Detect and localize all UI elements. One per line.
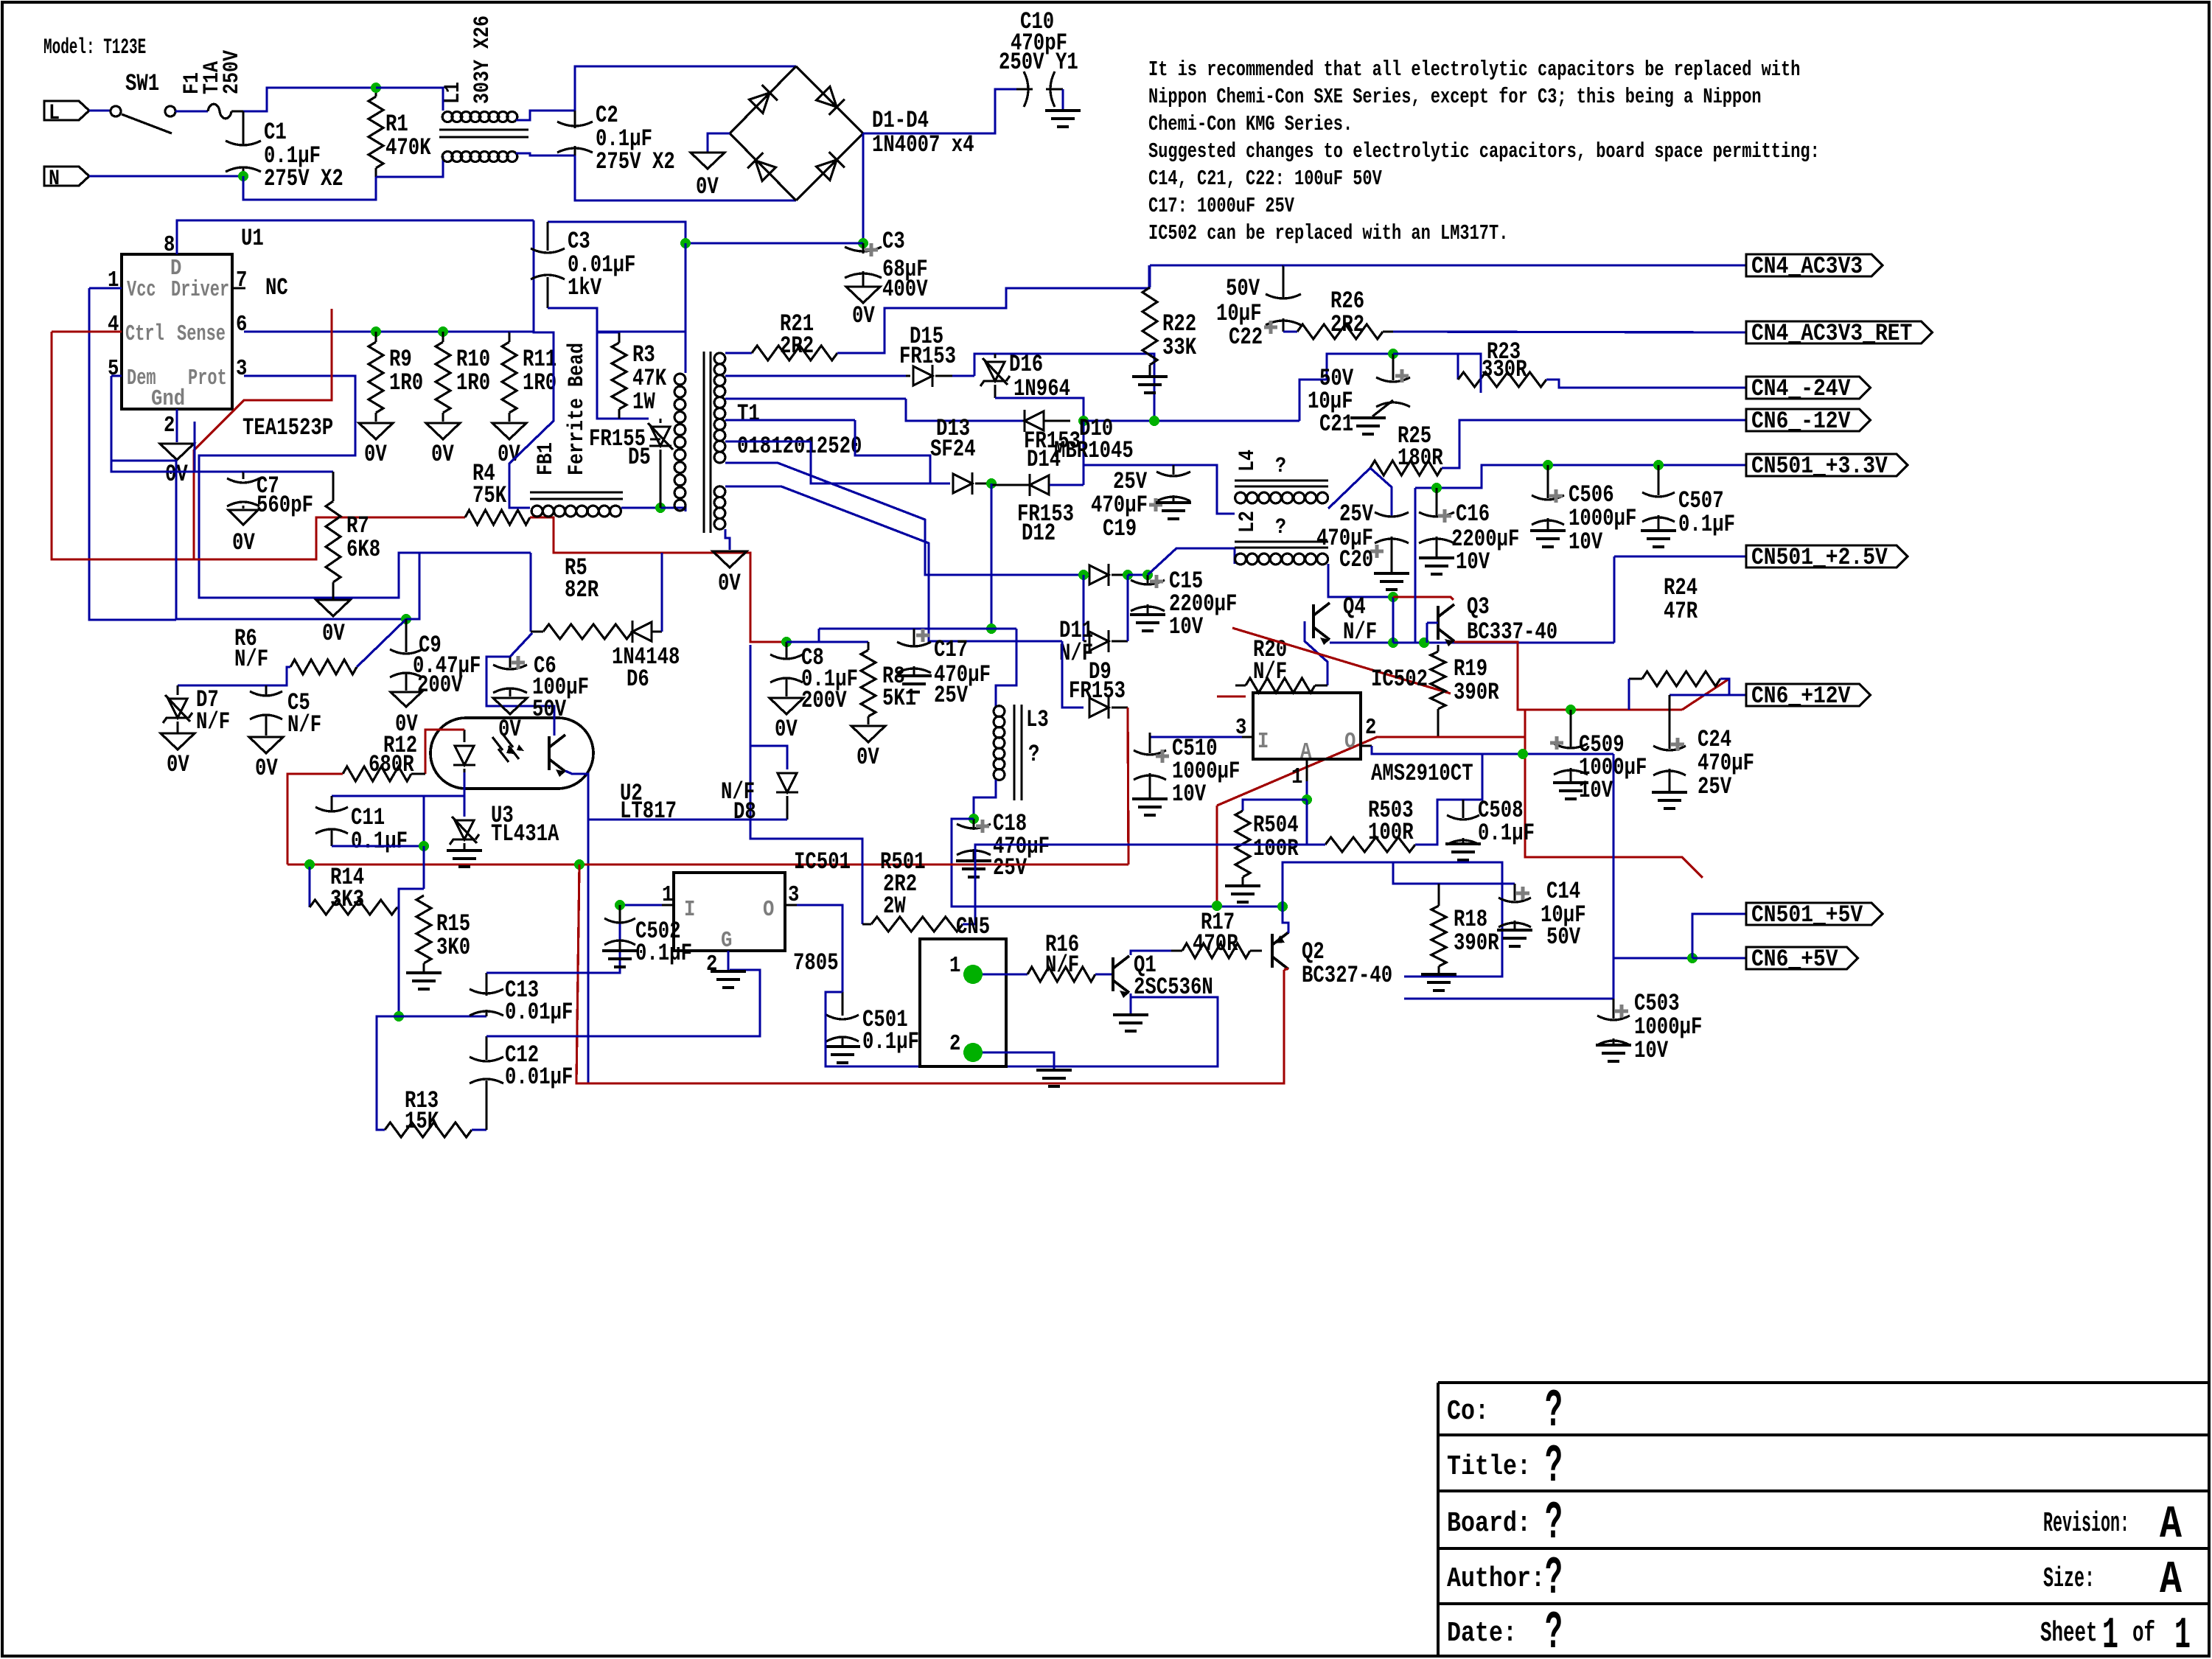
svg-text:200V: 200V (801, 687, 847, 714)
svg-text:NC: NC (265, 274, 288, 301)
wire Q4 emitter row (1330, 641, 1393, 643)
capacitor C5 (265, 685, 267, 695)
svg-text:U1: U1 (241, 225, 264, 252)
ground 0V C7 (228, 510, 258, 525)
svg-text:C19: C19 (1103, 515, 1137, 542)
CN5 pin1 wire to R16 (983, 973, 1028, 975)
svg-text:Q4: Q4 (1343, 593, 1366, 621)
svg-text:BC327-40: BC327-40 (1302, 962, 1392, 989)
capacitor C9 (405, 619, 407, 652)
svg-text:Sheet: Sheet (2040, 1618, 2098, 1649)
resistor R10 (438, 326, 448, 337)
opto emitter wire (565, 771, 588, 1083)
inductor L4 winding (1235, 492, 1328, 503)
wire C11 node down to R15 top (422, 846, 425, 889)
svg-text:1: 1 (108, 268, 119, 293)
wire D11 out up (1126, 575, 1128, 641)
wire bridge left to ground (708, 133, 730, 153)
svg-text:G: G (721, 928, 732, 954)
svg-text:2: 2 (1365, 715, 1376, 741)
svg-text:L3: L3 (1026, 706, 1049, 733)
capacitor C1 (226, 141, 261, 145)
wire R24 to +12V flag (1720, 679, 1746, 695)
resistor R21 (752, 346, 837, 360)
resistor R501 (750, 645, 862, 924)
capacitor C17 (913, 629, 915, 646)
ground 0V C8 (770, 698, 803, 714)
wire fuse junction to top rail (243, 88, 376, 111)
wire sec tap diag to D10 rail (725, 463, 1084, 575)
svg-text:IC502: IC502 (1371, 666, 1428, 693)
svg-text:4: 4 (108, 312, 119, 338)
capacitor C8 (785, 642, 787, 658)
svg-text:275V X2: 275V X2 (596, 148, 675, 175)
U1 pin7 stub (232, 287, 245, 289)
svg-text:1: 1 (1291, 764, 1302, 790)
svg-text:100R: 100R (1368, 819, 1414, 846)
transistor Q2 BC327-40 (1272, 932, 1288, 969)
svg-text:200V: 200V (417, 671, 463, 699)
svg-text:250V: 250V (220, 50, 245, 94)
svg-text:2R2: 2R2 (1330, 311, 1364, 338)
ground 0V C3 (846, 287, 880, 303)
resistor R24 (1642, 671, 1720, 686)
wire D13 junction to C17 rail (990, 483, 992, 629)
ground 0V R11 (492, 423, 526, 439)
U1 pin5 dem staircase (111, 376, 406, 619)
svg-text:Vcc: Vcc (127, 277, 156, 303)
svg-text:390R: 390R (1454, 679, 1499, 706)
svg-text:N/F: N/F (196, 708, 230, 736)
fuse F1 (208, 104, 231, 119)
vertical C8 to C17 rail (817, 629, 820, 642)
svg-text:7805: 7805 (793, 949, 839, 977)
wire R14 left from red rail (308, 867, 310, 907)
transistor Q1 2SC536N (1113, 956, 1129, 993)
opto light arrows (492, 734, 519, 762)
svg-text:0V: 0V (498, 716, 521, 743)
wire C14 rail (1393, 862, 1515, 884)
svg-text:D1-D4: D1-D4 (872, 107, 929, 134)
svg-text:470R: 470R (1193, 930, 1238, 957)
svg-text:Date:: Date: (1447, 1618, 1517, 1649)
svg-text:250V Y1: 250V Y1 (999, 49, 1078, 76)
svg-text:?: ? (1545, 1493, 1563, 1554)
ground 0V C6 (493, 698, 527, 714)
wire R25 node diag to C20 (1370, 468, 1392, 517)
T1 primary winding (674, 374, 685, 511)
red wire R19 node down to mid rail (1215, 806, 1218, 906)
capacitor C506 (1543, 460, 1553, 470)
svg-text:C22: C22 (1229, 324, 1263, 351)
ground 0V R7 (316, 600, 350, 616)
wire C16 node rail (1415, 465, 1746, 488)
resistor R7 (332, 472, 334, 501)
ground 0V R10 (426, 423, 460, 439)
svg-text:O: O (1344, 729, 1356, 755)
opto transistor (549, 735, 565, 772)
diode D14 FR153 (1025, 410, 1044, 432)
ground 0V R8 (851, 726, 885, 742)
connector flag CN4_AC3V3 (1746, 254, 1883, 276)
wire +2.5V flag rail (1614, 555, 1746, 557)
svg-text:N/F: N/F (287, 711, 321, 738)
connector flag N (44, 167, 89, 186)
IC502 pin2 wire (1361, 744, 1372, 747)
rail C17 row (819, 627, 1016, 629)
svg-text:IC501: IC501 (794, 848, 851, 876)
svg-text:C17: C17 (934, 636, 968, 663)
svg-text:O: O (763, 897, 774, 923)
wire D6 right up to red rail (660, 553, 663, 632)
wire D16 riser (974, 354, 1154, 421)
svg-text:0V: 0V (167, 751, 189, 778)
ground earth C507 (1641, 531, 1676, 547)
svg-text:D8: D8 (733, 798, 756, 825)
svg-text:Chemi-Con KMG Series.: Chemi-Con KMG Series. (1148, 112, 1353, 136)
title block frame (1438, 1383, 2209, 1655)
capacitor C16 (1435, 488, 1437, 516)
inductor L1 bottom winding (442, 152, 517, 162)
wire dem node diag to R6 (357, 619, 406, 667)
svg-text:N/F: N/F (1253, 658, 1287, 685)
capacitor C20 (1375, 512, 1409, 517)
svg-text:3K3: 3K3 (330, 886, 364, 913)
resistor R1 (374, 88, 377, 97)
capacitor C10 (1016, 88, 1033, 90)
svg-text:?: ? (1545, 1548, 1563, 1609)
wire AC3V3 rail to flag (1283, 264, 1746, 266)
ground 0V C9 (391, 692, 422, 707)
ground 0V U1 pin2 (160, 444, 194, 460)
svg-text:2: 2 (949, 1031, 960, 1057)
svg-text:180R: 180R (1398, 444, 1443, 472)
diode D4 (815, 152, 845, 181)
resistor R20 (1246, 678, 1315, 693)
U1 pin8 wire to drain rail (177, 220, 534, 254)
wire Q4 base to R20 (1305, 621, 1327, 685)
svg-text:680R: 680R (369, 751, 414, 778)
svg-text:D12: D12 (1022, 520, 1056, 547)
svg-text:10V: 10V (1569, 528, 1603, 556)
wire R501 right to R503 rail (963, 845, 1325, 924)
svg-text:D6: D6 (627, 666, 649, 693)
wire +12V flag stub to C24 (1670, 694, 1729, 696)
wire D10 out to C15 and L2 (1128, 573, 1148, 576)
svg-text:C20: C20 (1339, 546, 1373, 573)
wire R26 to RET flag (1393, 332, 1746, 332)
wire R1 bottom to L1 bottom (376, 156, 443, 177)
Q1 emitter to ground (1129, 993, 1131, 1013)
svg-text:A: A (2160, 1498, 2183, 1551)
svg-text:25V: 25V (1698, 773, 1732, 800)
svg-text:C17: 1000uF 25V: C17: 1000uF 25V (1148, 194, 1294, 218)
svg-text:33K: 33K (1162, 334, 1197, 361)
wire D15 to D16 (952, 374, 974, 377)
red wire Q3 emitter to C509 rail (1454, 642, 1682, 710)
svg-text:0.1µF: 0.1µF (635, 940, 692, 967)
ground earth C21 (1350, 418, 1386, 434)
inductor L1 top winding (442, 112, 517, 122)
svg-text:A: A (2160, 1554, 2183, 1606)
resistor R504 (1235, 811, 1250, 877)
diode D13 SF24 (930, 482, 950, 484)
resistor R22 (1142, 287, 1157, 365)
inductor L3 core (1013, 705, 1016, 800)
wire Q2 emitter to mid rail (1283, 907, 1288, 933)
svg-text:0V: 0V (255, 755, 278, 782)
wire C11 bottom row (332, 845, 424, 847)
red wire R12 to LED anode (425, 730, 464, 774)
svg-text:Q3: Q3 (1467, 593, 1490, 621)
wire N to C1 (89, 175, 243, 177)
svg-text:10V: 10V (1634, 1037, 1669, 1064)
wire R14 right down to dot (397, 907, 400, 1016)
wire C13 top rail to IC501 pin1 node (486, 905, 620, 973)
svg-text:2R2: 2R2 (780, 332, 814, 360)
svg-text:C3: C3 (882, 228, 905, 255)
diode D15 (906, 374, 910, 377)
svg-text:8: 8 (164, 232, 175, 258)
svg-text:L2: L2 (1235, 511, 1260, 533)
wire switch to fuse (175, 110, 208, 112)
T1 secondary lower winding (714, 486, 725, 529)
ground earth C10 (1045, 111, 1081, 127)
wire R21 to AC3V3 riser (837, 265, 1149, 353)
U1 pin1 wire (89, 287, 122, 289)
svg-text:400V: 400V (882, 276, 928, 303)
red wire R19 bottom rail (1217, 737, 1525, 806)
svg-text:1kV: 1kV (568, 274, 602, 301)
transistor Q4 N/F (1313, 603, 1330, 640)
connector flag CN501_+2.5V (1746, 545, 1908, 567)
wire D16 rail to C21 (1388, 349, 1398, 359)
wire N loop to R1 bottom (243, 176, 376, 200)
wire sec taps staircase (725, 397, 906, 399)
svg-text:0.1µF: 0.1µF (351, 828, 408, 855)
svg-text:L: L (49, 101, 60, 126)
red wire R12 left (287, 774, 343, 865)
capacitor C6 (509, 657, 511, 668)
diode D11 (1084, 640, 1086, 642)
resistor R13 (385, 1122, 472, 1137)
svg-text:Nippon Chemi-Con SXE Series, e: Nippon Chemi-Con SXE Series, except for … (1148, 85, 1762, 109)
svg-text:L1: L1 (441, 82, 466, 104)
svg-text:0V: 0V (696, 173, 719, 200)
svg-text:?: ? (1275, 454, 1286, 479)
resistor R14 (310, 900, 397, 915)
ground earth C14 (1497, 930, 1532, 946)
wire Q2 collector red (1284, 968, 1288, 970)
wire C1 bottom lead (242, 168, 244, 176)
svg-text:C16: C16 (1456, 500, 1490, 528)
red wire to +12V (1682, 679, 1729, 710)
IC501 box (674, 873, 785, 951)
capacitor C21 (1392, 354, 1394, 380)
capacitor C13 (485, 1010, 487, 1016)
wire sec lower tap diag to D11 row (725, 486, 1062, 641)
wire L2 right to Q4 collector rail (1328, 564, 1393, 597)
svg-text:0V: 0V (395, 710, 418, 738)
ground earth C501 (825, 1047, 860, 1063)
wire C503 rail (1404, 997, 1613, 999)
capacitor C14 (1513, 884, 1515, 901)
svg-text:6K8: 6K8 (346, 536, 380, 563)
diode D3 (747, 153, 777, 182)
ground 0V C5 (249, 737, 283, 753)
ground 0V D7 (161, 733, 195, 750)
B+ rail top (548, 222, 685, 243)
wire C7 to R7 top (243, 470, 333, 472)
svg-text:50V: 50V (1226, 275, 1260, 302)
svg-text:I: I (684, 897, 695, 923)
capacitor C502 (618, 905, 621, 923)
emitter rail to 2.5V riser (1393, 641, 1614, 643)
ground earth C24 (1652, 792, 1687, 808)
svg-text:275V X2: 275V X2 (264, 165, 343, 192)
wire C2 top rail to bridge (575, 66, 796, 111)
diode D5 FR155 (659, 419, 661, 423)
wire L1 to C2 (516, 111, 575, 120)
svg-text:?: ? (1545, 1603, 1563, 1659)
wire D12 to C19 riser (1050, 483, 1084, 486)
connector flag L (44, 101, 89, 120)
diode D12 FR153 (1030, 474, 1049, 496)
svg-text:SF24: SF24 (930, 436, 976, 463)
U1 pin6 sense wire (244, 330, 509, 332)
ground earth R15 (406, 973, 442, 989)
wire C19 top rail (1084, 465, 1235, 514)
svg-text:IC502 can be replaced with an: IC502 can be replaced with an LM317T. (1148, 221, 1508, 245)
svg-text:Ctrl: Ctrl (125, 321, 164, 347)
red wire R20 row diag to Q3 (1232, 628, 1451, 694)
capacitor C19 (1172, 465, 1174, 475)
connector flag CN501_+5V (1746, 903, 1883, 925)
svg-text:303Y X26: 303Y X26 (470, 15, 495, 104)
wire D11 left to D9 (1062, 641, 1084, 708)
svg-text:0V: 0V (718, 570, 741, 597)
capacitor C508 (1462, 800, 1464, 818)
IC U1 box (122, 254, 232, 409)
opto LED cathode wire (332, 772, 464, 796)
ground earth C503 (1596, 1045, 1631, 1061)
wire +5V flags (1613, 957, 1692, 959)
svg-text:Board:: Board: (1447, 1508, 1531, 1540)
drain rail down right side (509, 220, 554, 508)
svg-text:Gnd: Gnd (151, 386, 185, 412)
wire mid rail up to C14 rail (1283, 862, 1502, 977)
transformer T1 core (702, 352, 705, 533)
wire C17 rail to L3 (996, 629, 1016, 706)
ground earth C19 (1156, 503, 1191, 519)
wire L to switch (89, 109, 111, 111)
svg-text:0V: 0V (431, 441, 454, 468)
wire dem to C7 rail (193, 422, 195, 472)
U1 pin3 prot wire (199, 376, 531, 598)
wire pin1 to R503 (1307, 800, 1325, 845)
resistor R15 (416, 895, 431, 963)
svg-text:T1: T1 (737, 400, 760, 427)
svg-text:10V: 10V (1169, 613, 1204, 640)
IC501 pin2 wire (727, 951, 729, 970)
connector flag CN4_AC3V3_RET (1746, 321, 1932, 343)
wire sec tap1 to R21 (725, 352, 752, 354)
svg-text:3: 3 (236, 356, 247, 382)
svg-text:100R: 100R (1253, 835, 1299, 862)
connector flag CN4_-24V (1746, 377, 1870, 399)
wire C3 bottom to clamp node (548, 308, 649, 419)
svg-text:75K: 75K (472, 482, 507, 509)
wire FB1 to D5 junction (621, 506, 660, 509)
capacitor C509 (1566, 705, 1576, 715)
wire R3 top rail (597, 330, 685, 332)
ground earth U3 (447, 851, 482, 867)
wire R20 left red (1217, 695, 1246, 697)
wire dot down to R13 (377, 1016, 399, 1130)
ground earth C16 (1419, 558, 1454, 574)
svg-text:FB1: FB1 (534, 442, 559, 475)
svg-text:Title:: Title: (1447, 1451, 1531, 1483)
svg-text:1N4007 x4: 1N4007 x4 (872, 131, 974, 158)
connector CN5 box (920, 939, 1006, 1066)
wire sec tap2 to D15 (725, 374, 906, 377)
wire R25 right to -12V rail (1442, 420, 1746, 468)
wire bridge output down to C3 node (862, 133, 864, 243)
wire D14 junction rail (1084, 419, 1299, 422)
wire C10 to ground (1061, 89, 1064, 109)
inductor L4 core (1235, 480, 1328, 482)
svg-text:50V: 50V (1546, 923, 1581, 951)
svg-text:5K1: 5K1 (882, 685, 916, 712)
svg-text:N/F: N/F (234, 646, 268, 673)
diode D1 (748, 85, 778, 114)
svg-text:25V: 25V (934, 682, 969, 709)
wire C2 bottom loop to bridge (575, 156, 796, 200)
svg-text:?: ? (1275, 515, 1286, 540)
ferrite bead FB1 (530, 492, 623, 494)
ground earth CN5 (1036, 1070, 1072, 1086)
wire R11 top jog (509, 330, 534, 332)
ground earth C502 (602, 951, 638, 967)
T1 secondary lower bottom wire to gnd (725, 529, 730, 550)
svg-text:0V: 0V (232, 529, 255, 556)
capacitor C18 (972, 819, 974, 830)
svg-text:?: ? (1545, 1436, 1563, 1497)
wire C8 node to R8 (786, 640, 868, 643)
junction C8 node (781, 637, 792, 647)
svg-text:Suggested changes to electroly: Suggested changes to electrolytic capaci… (1148, 139, 1820, 164)
Vcc wire down (89, 288, 176, 620)
diode D11 vertical drop (1082, 575, 1084, 641)
svg-text:It is recommended that all ele: It is recommended that all electrolytic … (1148, 57, 1800, 82)
wire C6 node to opto collector (486, 657, 510, 658)
svg-text:Author:: Author: (1447, 1563, 1545, 1595)
inductor L2 winding (1235, 553, 1328, 565)
diode D6 1N4148 (632, 621, 652, 643)
svg-text:0V: 0V (322, 620, 345, 647)
svg-text:25V: 25V (1339, 500, 1374, 528)
wire R1 top rail to L1 (376, 88, 443, 111)
svg-text:10V: 10V (1579, 777, 1613, 804)
capacitor C2 (573, 111, 576, 128)
resistor R3 top lead (597, 331, 619, 333)
wire R503 right to C508 rail (1415, 754, 1482, 845)
ground earth C506 (1530, 531, 1566, 547)
wire R16 to Q1 base (1095, 973, 1113, 975)
ground earth C509 (1553, 783, 1588, 799)
svg-text:330R: 330R (1482, 356, 1527, 383)
svg-text:0V: 0V (856, 744, 879, 771)
